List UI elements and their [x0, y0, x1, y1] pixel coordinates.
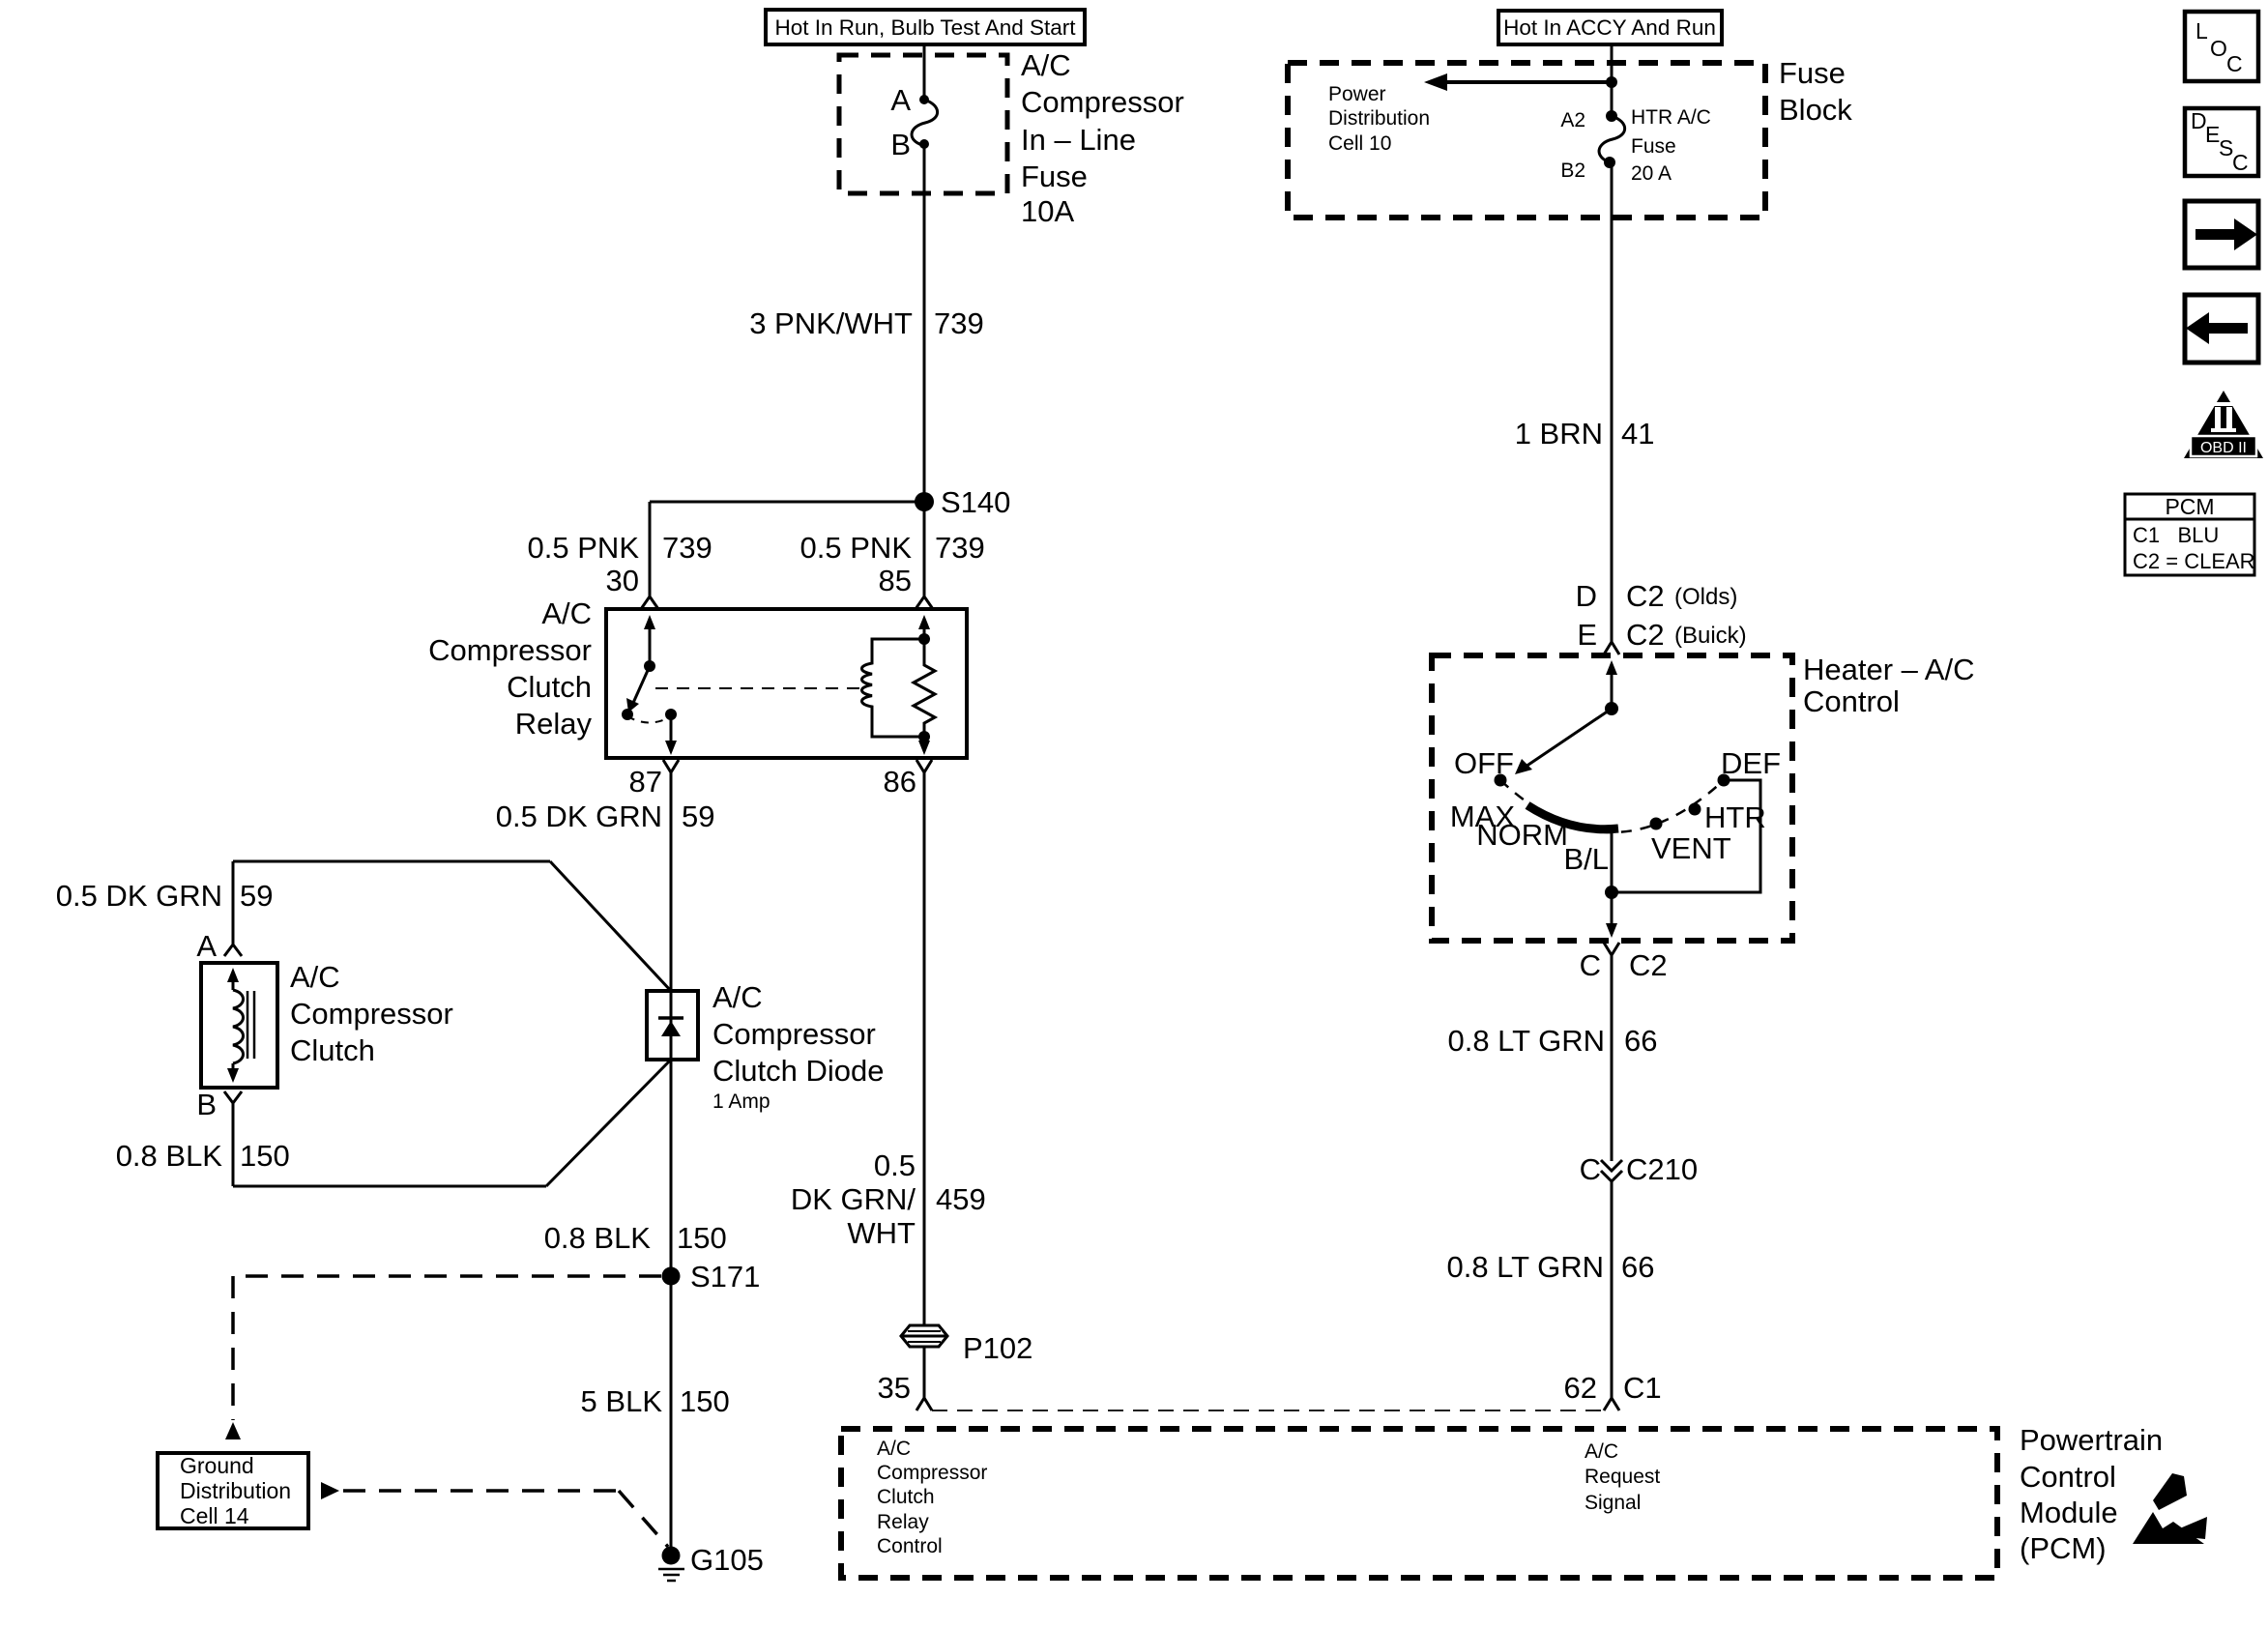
svg-text:0.8 LT GRN: 0.8 LT GRN — [1447, 1024, 1605, 1058]
svg-text:Compressor: Compressor — [1021, 85, 1184, 119]
arrow to power distribution — [1424, 73, 1612, 91]
svg-text:10A: 10A — [1021, 194, 1074, 228]
label Fuse Block — [1779, 56, 1852, 127]
PCM label A/C Request Signal — [1585, 1440, 1660, 1514]
svg-text:B: B — [890, 128, 911, 161]
svg-text:A: A — [890, 83, 911, 117]
heater switch contact DEF — [1718, 774, 1730, 787]
relay pin 87 internal arrow — [665, 714, 677, 755]
label Power Distribution Cell 10 — [1328, 83, 1430, 155]
svg-text:5 BLK: 5 BLK — [581, 1384, 663, 1418]
relay coil — [862, 633, 931, 737]
relay label A/C Compressor Clutch Relay — [428, 596, 592, 741]
diode D1 box — [647, 991, 698, 1060]
wire branch to clutch terminal A — [233, 861, 671, 991]
connector P102 — [901, 1325, 1032, 1365]
header box "Hot In ACCY And Run" — [1498, 11, 1722, 44]
svg-text:Signal: Signal — [1585, 1492, 1641, 1514]
svg-text:(Buick): (Buick) — [1674, 623, 1747, 649]
relay dashed contact arc — [627, 716, 671, 723]
label Heater-A/C Control — [1803, 653, 1974, 718]
svg-text:0.5 PNK: 0.5 PNK — [800, 531, 913, 565]
clutch M1 box (A/C Compressor Clutch) — [201, 963, 277, 1088]
wire label 0.8 LT GRN 66 (upper) — [1447, 1024, 1657, 1058]
svg-text:Cell 14: Cell 14 — [180, 1503, 249, 1528]
svg-text:Fuse: Fuse — [1779, 56, 1846, 90]
dashed arrow from ground distribution box to G105 — [321, 1482, 668, 1547]
wire from header to fuse A — [923, 44, 926, 100]
heater switch dashed arc — [1500, 780, 1724, 832]
label A/C Compressor In-Line Fuse 10A — [1021, 48, 1184, 228]
connector label E C2 (Buick) — [1577, 618, 1746, 652]
svg-text:A/C: A/C — [541, 596, 592, 630]
heater A/C control dashed box — [1432, 655, 1792, 941]
terminal chevron pin 30 — [641, 596, 658, 609]
terminal chevron heater top — [1604, 642, 1619, 654]
diode D1 symbol — [658, 1018, 683, 1036]
left arrow icon box — [2185, 295, 2258, 363]
svg-text:A: A — [196, 929, 217, 963]
svg-text:VENT: VENT — [1651, 831, 1731, 865]
svg-text:Ground: Ground — [180, 1453, 254, 1478]
wire label 0.5 DK GRN/ WHT 459 — [791, 1148, 986, 1250]
svg-text:30: 30 — [606, 564, 639, 597]
heater switch wiper arm — [1515, 709, 1612, 774]
svg-text:A/C: A/C — [877, 1438, 911, 1460]
label HTR A/C Fuse 20 A — [1631, 106, 1711, 185]
svg-text:C2: C2 — [1626, 579, 1665, 613]
svg-text:0.8 BLK: 0.8 BLK — [544, 1221, 652, 1255]
wire label 0.8 BLK 150 (clutch) — [116, 1139, 290, 1173]
svg-text:Heater – A/C: Heater – A/C — [1803, 653, 1974, 686]
PCM connector legend box — [2125, 494, 2255, 575]
junction dot in fuse block — [1606, 76, 1617, 88]
svg-text:62: 62 — [1564, 1371, 1597, 1405]
wire label 3 PNK/WHT 739 — [749, 306, 984, 340]
heater switch position labels — [1450, 746, 1781, 876]
fuse HTR A/C 20A element — [1599, 110, 1625, 168]
svg-text:0.5 DK GRN: 0.5 DK GRN — [56, 879, 222, 913]
svg-text:Control: Control — [2020, 1460, 2116, 1494]
svg-text:459: 459 — [936, 1182, 986, 1216]
fuse F1 element — [912, 95, 938, 149]
clutch coil symbol — [227, 968, 254, 1083]
fuse block dashed box — [1288, 63, 1765, 218]
svg-text:Distribution: Distribution — [1328, 107, 1430, 130]
svg-text:85: 85 — [879, 564, 912, 597]
wire clutch B to diode bottom — [233, 1060, 671, 1186]
svg-text:Fuse: Fuse — [1631, 135, 1676, 158]
relay switch pivot dot — [644, 660, 655, 672]
heater switch contact VENT — [1650, 818, 1663, 830]
svg-text:150: 150 — [240, 1139, 290, 1173]
svg-text:S140: S140 — [941, 485, 1010, 519]
heater switch contact HTR — [1689, 803, 1701, 816]
svg-text:Clutch Diode: Clutch Diode — [712, 1054, 884, 1088]
wire S140 branch to relay pin 30 — [650, 502, 924, 596]
svg-text:Fuse: Fuse — [1021, 160, 1088, 193]
svg-text:739: 739 — [935, 531, 985, 565]
svg-text:B/L: B/L — [1563, 842, 1609, 876]
svg-text:(PCM): (PCM) — [2020, 1531, 2107, 1565]
relay pin 30 internal arrow — [644, 615, 655, 666]
svg-text:739: 739 — [662, 531, 712, 565]
wire C210 to PCM pin 62 — [1611, 1181, 1614, 1398]
terminal chevron PCM pin 35 — [916, 1398, 932, 1410]
svg-text:B2: B2 — [1560, 160, 1585, 182]
relay pin 85 internal arrow — [918, 615, 930, 639]
wire pin 87 to diode — [670, 772, 673, 1276]
svg-text:Module: Module — [2020, 1496, 2118, 1529]
heater output arrow — [1606, 923, 1617, 938]
svg-text:C2: C2 — [1626, 618, 1665, 652]
terminal chevron clutch B — [224, 1091, 242, 1103]
svg-text:(Olds): (Olds) — [1674, 584, 1737, 610]
svg-text:E: E — [1577, 618, 1597, 652]
relay K1 box (A/C Compressor Clutch Relay) — [606, 609, 967, 758]
svg-text:O: O — [2210, 36, 2227, 61]
svg-text:Clutch: Clutch — [877, 1486, 935, 1508]
svg-text:In – Line: In – Line — [1021, 123, 1136, 157]
heater switch thick arc MAX-NORM-B/L — [1527, 805, 1618, 829]
wire label 0.5 PNK 739 (right) — [800, 531, 985, 565]
svg-text:59: 59 — [240, 879, 273, 913]
terminal chevron heater bottom — [1604, 943, 1619, 955]
svg-text:C1: C1 — [1623, 1371, 1662, 1405]
svg-text:HTR A/C: HTR A/C — [1631, 106, 1711, 129]
svg-text:PCM: PCM — [2165, 494, 2214, 519]
svg-text:Control: Control — [1803, 684, 1900, 718]
svg-text:C: C — [1580, 948, 1601, 982]
svg-text:Distribution: Distribution — [180, 1478, 291, 1503]
svg-text:41: 41 — [1621, 417, 1654, 451]
svg-text:150: 150 — [680, 1384, 730, 1418]
svg-text:A/C: A/C — [1585, 1440, 1618, 1463]
svg-text:35: 35 — [878, 1371, 911, 1405]
wire heater to C210 — [1611, 955, 1614, 1161]
LOC icon box — [2185, 12, 2258, 81]
svg-text:20 A: 20 A — [1631, 162, 1672, 185]
heater output junction dot — [1605, 886, 1618, 899]
svg-text:OBD II: OBD II — [2200, 440, 2247, 456]
header box "Hot In Run, Bulb Test And Start" — [766, 10, 1085, 44]
svg-text:87: 87 — [629, 765, 662, 799]
svg-text:HTR: HTR — [1704, 800, 1766, 834]
wire relay pin 86 to PCM pin 35 — [923, 772, 926, 1398]
wire label 0.5 DK GRN 59 (clutch) — [56, 879, 274, 913]
DESC icon box — [2185, 108, 2258, 176]
connector label C C2 — [1580, 948, 1668, 982]
svg-text:C2: C2 — [1629, 948, 1668, 982]
svg-text:66: 66 — [1621, 1250, 1654, 1284]
svg-text:1 Amp: 1 Amp — [712, 1090, 771, 1113]
connector label D C2 (Olds) — [1576, 579, 1738, 613]
terminal chevron pin 86 — [916, 760, 932, 772]
svg-text:L: L — [2195, 18, 2208, 44]
svg-text:0.8 LT GRN: 0.8 LT GRN — [1446, 1250, 1604, 1284]
clutch label A/C Compressor Clutch — [290, 960, 453, 1067]
svg-text:Block: Block — [1779, 93, 1852, 127]
svg-text:DK GRN/: DK GRN/ — [791, 1182, 916, 1216]
svg-text:C210: C210 — [1626, 1152, 1698, 1186]
svg-text:59: 59 — [682, 799, 714, 833]
svg-text:Compressor: Compressor — [877, 1462, 987, 1484]
svg-text:Hot In ACCY And Run: Hot In ACCY And Run — [1503, 15, 1716, 40]
svg-text:A/C: A/C — [712, 980, 763, 1014]
terminal chevron clutch A — [224, 945, 242, 956]
heater wire DEF to output — [1612, 780, 1760, 892]
svg-text:A/C: A/C — [1021, 48, 1071, 82]
svg-text:P102: P102 — [963, 1331, 1032, 1365]
wire label 0.5 DK GRN 59 — [496, 799, 715, 833]
relay actuation dashed line — [655, 687, 868, 689]
svg-text:1 BRN: 1 BRN — [1515, 417, 1603, 451]
svg-text:0.5 DK GRN: 0.5 DK GRN — [496, 799, 662, 833]
heater wire B/L to output — [1611, 829, 1614, 926]
wire fuse B to S140 — [923, 144, 926, 502]
right arrow icon box — [2185, 201, 2258, 268]
svg-text:Request: Request — [1585, 1466, 1660, 1488]
svg-text:C1 BLU: C1 BLU — [2133, 523, 2219, 547]
wire label 1 BRN 41 — [1515, 417, 1655, 451]
label Powertrain Control Module (PCM) — [2020, 1423, 2163, 1565]
svg-text:Compressor: Compressor — [428, 633, 592, 667]
svg-text:150: 150 — [677, 1221, 727, 1255]
svg-text:Compressor: Compressor — [290, 997, 453, 1031]
svg-text:A/C: A/C — [290, 960, 340, 994]
wire header to fuse block — [1611, 44, 1614, 116]
ground G105 — [658, 1543, 764, 1581]
heater switch pivot dot — [1605, 702, 1618, 715]
PCM box (dashed) — [841, 1429, 1997, 1578]
thin dashed connector line C1 — [932, 1410, 1604, 1411]
svg-text:Relay: Relay — [515, 707, 593, 741]
svg-text:3 PNK/WHT: 3 PNK/WHT — [749, 306, 913, 340]
wire label 0.8 BLK 150 — [544, 1221, 727, 1255]
wire S140 to relay pin 85 — [923, 502, 926, 596]
heater switch contact OFF — [1495, 774, 1507, 787]
wire label 0.5 PNK 739 (left) — [528, 531, 712, 565]
relay coil resistor — [914, 639, 935, 742]
OBD II icon — [2184, 391, 2263, 458]
terminal chevron pin 85 — [916, 596, 933, 609]
svg-text:Clutch: Clutch — [507, 670, 592, 704]
relay pin 86 internal arrow — [918, 737, 930, 755]
dashed ground distribution wire from S171 — [225, 1276, 661, 1439]
svg-text:Power: Power — [1328, 83, 1386, 105]
diode label A/C Compressor Clutch Diode 1 Amp — [712, 980, 884, 1113]
svg-text:C: C — [1580, 1152, 1601, 1186]
svg-text:B: B — [196, 1088, 217, 1121]
wire fuse block to heater control — [1611, 162, 1614, 642]
splice node S140 — [915, 485, 1010, 519]
splice node S171 — [662, 1260, 761, 1294]
fuse F1 dashed box (A/C Compressor In-Line Fuse) — [839, 55, 1007, 193]
connector C210 — [1580, 1152, 1699, 1186]
svg-text:A2: A2 — [1560, 109, 1585, 131]
PCM label A/C Compressor Clutch Relay Control — [877, 1438, 987, 1557]
svg-text:Cell 10: Cell 10 — [1328, 132, 1391, 155]
pin label 62 C1 — [1564, 1371, 1662, 1405]
svg-text:0.5 PNK: 0.5 PNK — [528, 531, 640, 565]
ESD sensitive symbol — [2133, 1473, 2207, 1544]
svg-text:S171: S171 — [690, 1260, 760, 1294]
svg-text:86: 86 — [884, 765, 916, 799]
wire label 0.8 LT GRN 66 (lower) — [1446, 1250, 1654, 1284]
wire label 5 BLK 150 — [581, 1384, 730, 1418]
svg-text:0.8 BLK: 0.8 BLK — [116, 1139, 223, 1173]
svg-text:Control: Control — [877, 1535, 943, 1557]
svg-text:Powertrain: Powertrain — [2020, 1423, 2163, 1457]
heater switch input arrow — [1606, 660, 1617, 709]
svg-text:739: 739 — [934, 306, 984, 340]
svg-text:D: D — [1576, 579, 1597, 613]
svg-text:66: 66 — [1624, 1024, 1657, 1058]
svg-text:NORM: NORM — [1476, 818, 1568, 852]
ground distribution cell box — [158, 1453, 308, 1528]
svg-text:C: C — [2232, 150, 2249, 175]
svg-text:DEF: DEF — [1721, 746, 1781, 780]
svg-text:G105: G105 — [690, 1543, 764, 1577]
terminal chevron pin 87 — [663, 760, 679, 772]
svg-text:OFF: OFF — [1454, 746, 1514, 780]
svg-text:WHT: WHT — [847, 1216, 916, 1250]
svg-text:Compressor: Compressor — [712, 1017, 876, 1051]
svg-text:Relay: Relay — [877, 1511, 929, 1533]
svg-text:C: C — [2226, 51, 2243, 76]
svg-text:Hot In Run, Bulb Test And Star: Hot In Run, Bulb Test And Start — [774, 15, 1076, 40]
wire S171 to G105 — [670, 1276, 673, 1555]
relay switch wiper arm — [626, 666, 650, 712]
svg-text:C2 = CLEAR: C2 = CLEAR — [2133, 549, 2255, 573]
svg-text:0.5: 0.5 — [874, 1148, 916, 1182]
relay contact dot (NC side) — [622, 709, 633, 720]
terminal chevron PCM pin 62 — [1604, 1398, 1619, 1410]
svg-text:Clutch: Clutch — [290, 1033, 375, 1067]
relay contact dot (pin 87 side) — [665, 709, 677, 720]
